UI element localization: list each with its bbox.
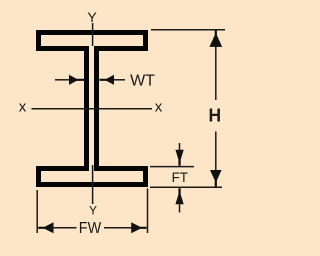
wire: vertical centerline top segment [92, 23, 94, 46]
FT bottom arrowhead [175, 188, 183, 204]
wire: WT right arrow tail [114, 79, 126, 81]
wire: FW dimension line left segment [51, 227, 77, 229]
svg-text:Y: Y [89, 204, 97, 218]
WT left arrowhead [69, 75, 85, 85]
wire: vertical centerline bottom segment [92, 165, 94, 204]
wire: WT left arrow tail [55, 79, 70, 81]
svg-text:Y: Y [87, 9, 97, 25]
svg-text:x: x [155, 98, 163, 115]
FW right arrowhead [131, 222, 146, 233]
wire: FT top extension line [150, 166, 194, 168]
svg-text:WT: WT [130, 73, 155, 90]
H bottom arrowhead [210, 170, 222, 187]
FT top arrowhead [175, 150, 183, 166]
I-beam cross-section outline [39, 33, 146, 185]
wire: H bottom extension line [150, 186, 222, 188]
wire: H top extension line [151, 29, 225, 31]
svg-text:FW: FW [79, 220, 102, 237]
WT right arrowhead [99, 75, 114, 85]
H top arrowhead [209, 30, 222, 47]
wire: FW left extension line [36, 190, 38, 233]
wire: H dimension vertical line upper [215, 32, 217, 100]
FW left arrowhead [38, 222, 53, 233]
wire: FW right extension line [147, 189, 149, 234]
wire: FT bottom arrow tail [179, 202, 181, 213]
wire: FW dimension line right segment [104, 227, 134, 229]
svg-text:H: H [209, 105, 222, 126]
svg-text:x: x [19, 98, 27, 115]
svg-text:FT: FT [172, 170, 189, 185]
wire: x-x horizontal centerline [32, 108, 153, 110]
wire: FT top arrow tail [179, 143, 181, 151]
wire: H dimension vertical line lower [215, 132, 217, 186]
